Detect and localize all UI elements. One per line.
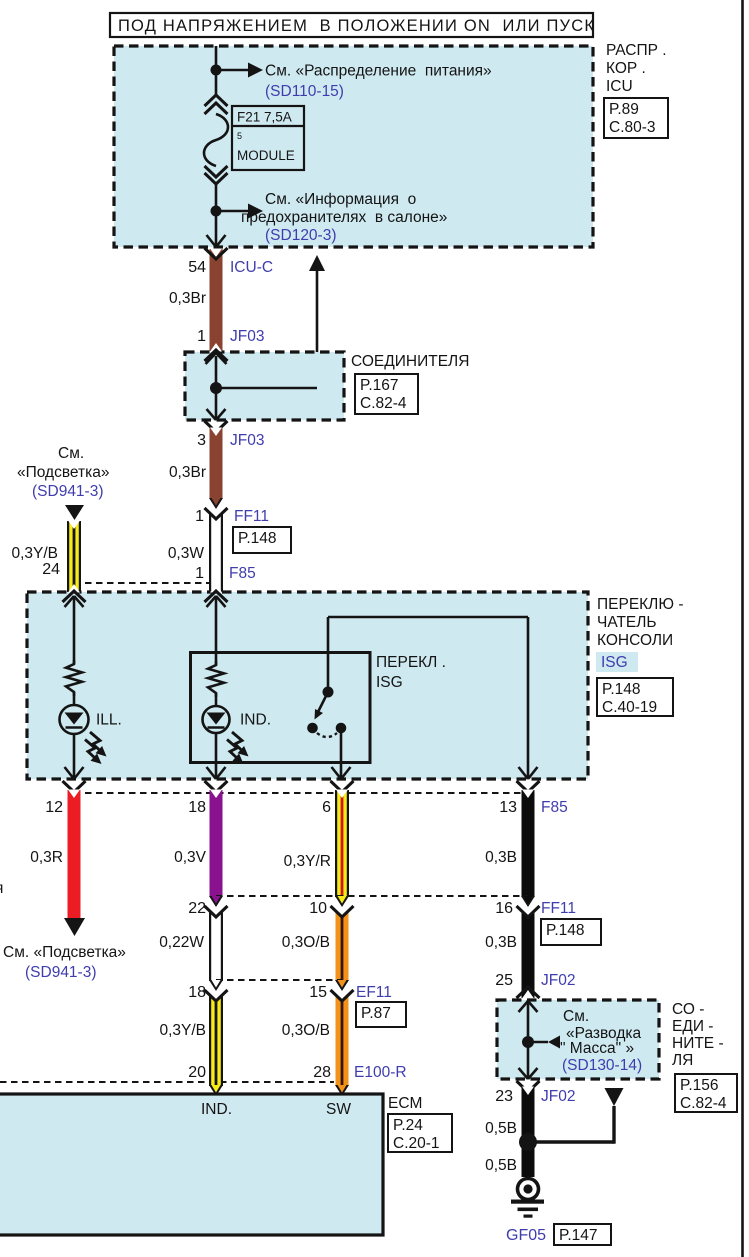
svg-text:0,3Y/B: 0,3Y/B (11, 545, 58, 562)
svg-text:SW: SW (326, 1101, 351, 1118)
svg-text:10: 10 (309, 900, 327, 917)
svg-text:JF02: JF02 (541, 1088, 575, 1105)
svg-text:0,3B: 0,3B (485, 934, 517, 951)
svg-text:P.24: P.24 (393, 1117, 423, 1134)
svg-text:P.148: P.148 (238, 530, 277, 547)
svg-text:«Подсветка»: «Подсветка» (17, 464, 109, 481)
svg-text:P.148: P.148 (546, 922, 585, 939)
svg-text:ЧАТЕЛЬ: ЧАТЕЛЬ (597, 614, 657, 631)
svg-text:18: 18 (188, 984, 206, 1001)
svg-text:ISG: ISG (601, 654, 628, 671)
svg-text:1: 1 (195, 565, 204, 582)
svg-text:F21 7,5A: F21 7,5A (237, 110, 292, 125)
svg-text:1: 1 (197, 328, 206, 345)
svg-text:E100-R: E100-R (354, 1064, 407, 1081)
svg-text:C.80-3: C.80-3 (609, 119, 656, 136)
svg-text:НИТЕ -: НИТЕ - (672, 1035, 724, 1052)
svg-text:0,3R: 0,3R (30, 849, 63, 866)
svg-text:C.40-19: C.40-19 (602, 699, 657, 716)
svg-text:P.87: P.87 (361, 1005, 391, 1022)
svg-text:" Масса" »: " Масса" » (560, 1040, 634, 1057)
svg-text:См. «Распределение питания»: См. «Распределение питания» (265, 63, 492, 80)
svg-text:0,3O/B: 0,3O/B (282, 1022, 330, 1039)
svg-text:См. «Информация о: См. «Информация о (265, 191, 416, 208)
svg-text:ISG: ISG (376, 674, 403, 691)
svg-text:6: 6 (322, 799, 331, 816)
svg-text:1: 1 (195, 508, 204, 525)
svg-text:P.156: P.156 (680, 1077, 719, 1094)
svg-text:0,3W: 0,3W (168, 545, 205, 562)
svg-text:ПОД НАПРЯЖЕНИЕМ В ПОЛОЖЕНИИ O: ПОД НАПРЯЖЕНИЕМ В ПОЛОЖЕНИИ ON ИЛИ ПУСК (118, 17, 595, 35)
svg-text:предохранителях в салоне»: предохранителях в салоне» (241, 209, 447, 226)
svg-text:28: 28 (313, 1064, 331, 1081)
svg-text:24: 24 (42, 561, 60, 578)
svg-text:ICU-C: ICU-C (230, 259, 273, 276)
svg-text:20: 20 (188, 1064, 206, 1081)
svg-text:C.20-1: C.20-1 (393, 1135, 440, 1152)
svg-text:25: 25 (495, 972, 513, 989)
svg-text:0,3Y/R: 0,3Y/R (284, 853, 331, 870)
svg-text:См.: См. (563, 1008, 589, 1025)
svg-text:C.82-4: C.82-4 (360, 395, 407, 412)
svg-text:P.89: P.89 (609, 101, 639, 118)
svg-text:См. «Подсветка»: См. «Подсветка» (3, 944, 126, 961)
svg-text:P.148: P.148 (602, 681, 641, 698)
svg-text:ECM: ECM (388, 1095, 422, 1112)
svg-text:18: 18 (188, 799, 206, 816)
svg-text:EF11: EF11 (356, 984, 392, 1001)
svg-text:См.: См. (58, 445, 84, 462)
svg-text:FF11: FF11 (541, 900, 576, 917)
svg-text:23: 23 (495, 1088, 513, 1105)
svg-text:ЛЯ: ЛЯ (672, 1052, 693, 1069)
svg-text:5: 5 (237, 131, 242, 141)
svg-text:MODULE: MODULE (237, 148, 295, 163)
svg-text:P.147: P.147 (559, 1227, 598, 1244)
svg-text:ПЕРЕКЛЮ -: ПЕРЕКЛЮ - (597, 596, 683, 613)
svg-text:C.82-4: C.82-4 (680, 1095, 727, 1112)
svg-text:F85: F85 (229, 565, 256, 582)
svg-text:ЕДИ -: ЕДИ - (672, 1018, 713, 1035)
svg-text:(SD120-3): (SD120-3) (265, 227, 337, 244)
svg-text:P.167: P.167 (360, 377, 399, 394)
svg-text:16: 16 (495, 900, 513, 917)
svg-text:(SD941-3): (SD941-3) (25, 964, 97, 981)
svg-text:0,3B: 0,3B (485, 849, 517, 866)
svg-text:22: 22 (188, 900, 206, 917)
svg-text:IND.: IND. (201, 1101, 232, 1118)
svg-text:(SD941-3): (SD941-3) (32, 483, 104, 500)
svg-text:ICU: ICU (606, 78, 633, 95)
svg-text:КОНСОЛИ: КОНСОЛИ (597, 632, 673, 649)
svg-text:FF11: FF11 (234, 508, 269, 525)
svg-text:0,3Br: 0,3Br (169, 290, 206, 307)
svg-text:0,3V: 0,3V (174, 849, 207, 866)
svg-text:JF03: JF03 (230, 328, 264, 345)
svg-text:3: 3 (197, 432, 206, 449)
svg-text:12: 12 (45, 799, 63, 816)
svg-text:F85: F85 (541, 799, 568, 816)
svg-text:СОЕДИНИТЕЛЯ: СОЕДИНИТЕЛЯ (351, 353, 469, 370)
svg-text:0,3O/B: 0,3O/B (282, 934, 330, 951)
svg-text:ILL.: ILL. (96, 712, 122, 729)
svg-text:0,5B: 0,5B (485, 1157, 517, 1174)
svg-text:GF05: GF05 (506, 1227, 546, 1244)
svg-text:я: я (0, 880, 3, 897)
svg-text:(SD110-15): (SD110-15) (265, 83, 344, 100)
svg-text:13: 13 (499, 799, 517, 816)
svg-text:JF02: JF02 (541, 972, 575, 989)
svg-text:0,5B: 0,5B (485, 1120, 517, 1137)
svg-text:JF03: JF03 (230, 432, 264, 449)
svg-text:СО -: СО - (672, 1001, 704, 1018)
svg-text:0,22W: 0,22W (159, 934, 204, 951)
svg-text:15: 15 (309, 984, 327, 1001)
svg-text:РАСПР .: РАСПР . (606, 42, 667, 59)
svg-text:IND.: IND. (240, 712, 271, 729)
svg-text:54: 54 (188, 259, 206, 276)
svg-text:0,3Y/B: 0,3Y/B (159, 1022, 206, 1039)
svg-text:КОР .: КОР . (606, 60, 646, 77)
svg-text:(SD130-14): (SD130-14) (562, 1057, 642, 1074)
svg-text:ПЕРЕКЛ .: ПЕРЕКЛ . (376, 654, 446, 671)
svg-text:0,3Br: 0,3Br (169, 464, 206, 481)
